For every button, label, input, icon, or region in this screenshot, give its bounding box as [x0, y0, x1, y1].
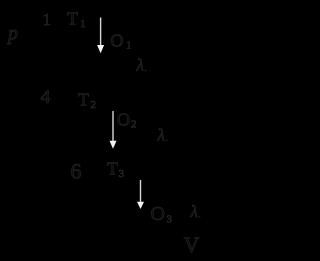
transition label lambda 3 [190, 202, 201, 221]
svg-text:O: O [117, 110, 130, 130]
svg-text:1: 1 [126, 40, 132, 52]
emission arrow 1 wire [97, 18, 104, 54]
svg-text:.: . [166, 133, 168, 143]
svg-text:1: 1 [80, 18, 86, 30]
observation label O2 [117, 110, 137, 131]
svg-text:T: T [107, 159, 118, 179]
svg-text:O: O [151, 203, 165, 225]
continuation label V [184, 232, 200, 257]
svg-text:λ: λ [190, 202, 198, 221]
emission arrow 3 wire [137, 180, 144, 209]
time index label 1 [43, 10, 52, 29]
transition label lambda 1 [136, 56, 147, 75]
svg-text:T: T [78, 90, 89, 110]
svg-text:V: V [184, 232, 200, 257]
initial probability label p [6, 23, 18, 45]
svg-text:λ: λ [157, 126, 165, 145]
svg-text:3: 3 [167, 214, 173, 226]
svg-text:1: 1 [43, 10, 52, 29]
time index label 4 [41, 86, 51, 108]
svg-text:6: 6 [71, 159, 82, 184]
svg-text:T: T [67, 9, 78, 29]
svg-text:.: . [145, 63, 147, 73]
time index label 6 [71, 159, 82, 184]
svg-text:.: . [199, 210, 201, 220]
state node label T2 [78, 90, 96, 112]
svg-text:3: 3 [119, 168, 125, 180]
svg-text:2: 2 [131, 119, 137, 131]
svg-text:O: O [111, 31, 124, 51]
observation label O3 [151, 203, 173, 226]
state node label T1 [67, 9, 86, 31]
svg-text:4: 4 [41, 86, 51, 108]
observation label O1 [111, 31, 132, 52]
svg-text:λ: λ [136, 56, 144, 75]
emission arrow 2 wire [110, 111, 117, 149]
state node label T3 [107, 159, 125, 181]
svg-text:p: p [6, 23, 18, 45]
svg-text:2: 2 [91, 99, 97, 111]
transition label lambda 2 [157, 126, 168, 145]
